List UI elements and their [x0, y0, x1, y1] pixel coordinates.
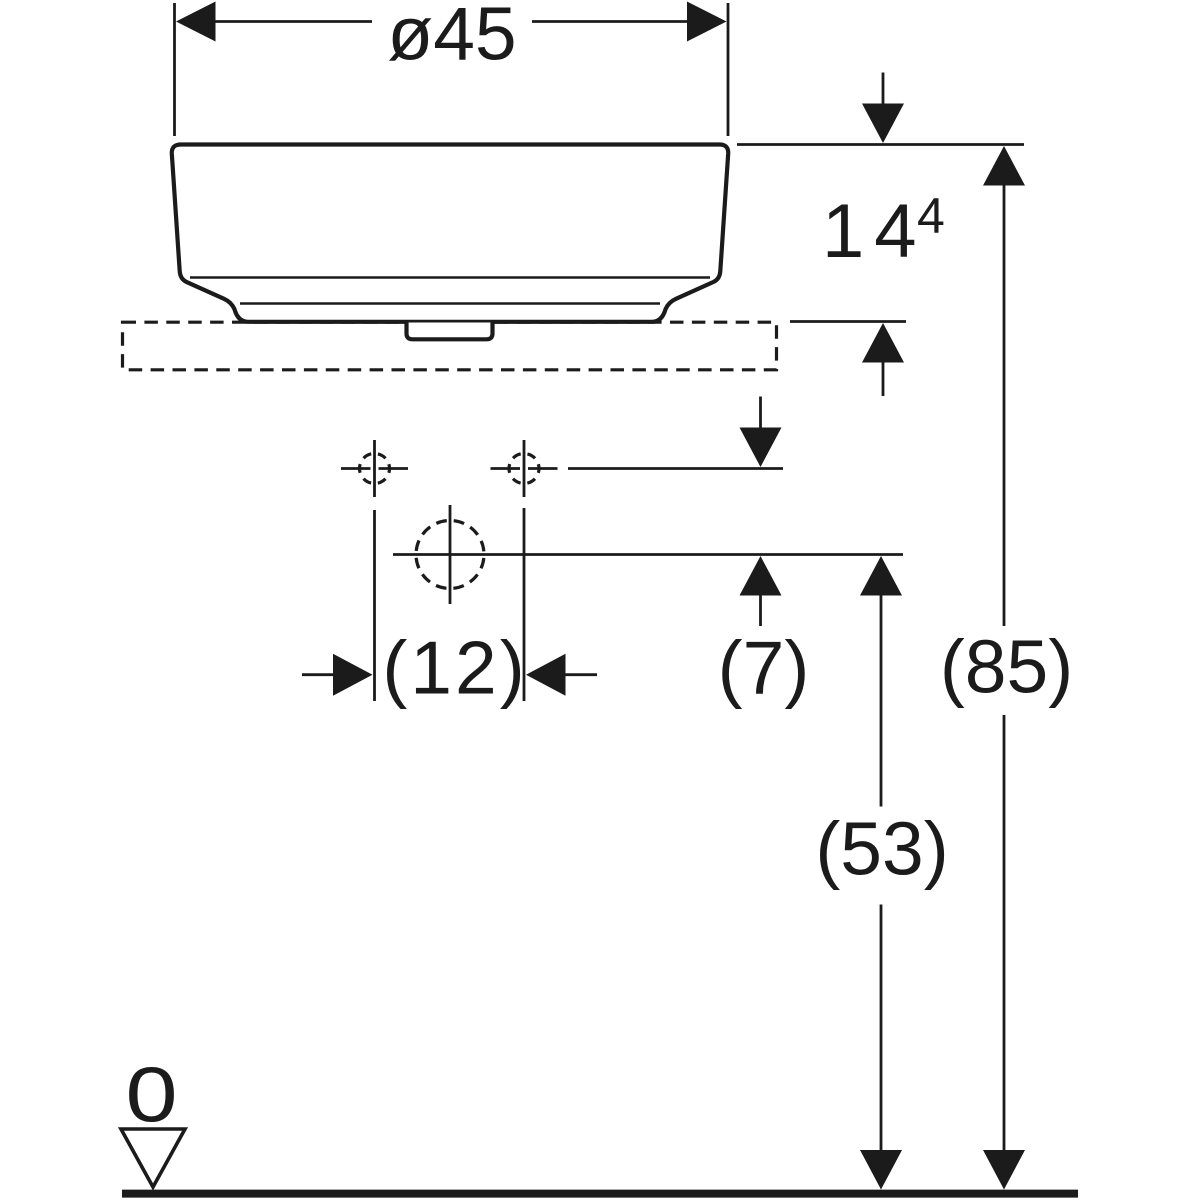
svg-text:ø45: ø45	[387, 0, 516, 76]
dim o45: right arrowhead	[687, 2, 727, 42]
dim 14: bottom arrow stem	[882, 363, 885, 397]
tap hole right: crosshair	[491, 440, 558, 497]
basin top level extension line	[737, 143, 1024, 146]
dim 53: upper stem	[880, 596, 883, 807]
dim 12: left arrowhead (right pointing)	[333, 654, 373, 696]
dashed countertop rectangle	[123, 322, 777, 370]
svg-text:4: 4	[917, 188, 945, 244]
svg-text:14: 14	[822, 189, 927, 274]
dim 53: top arrowhead (up)	[860, 556, 902, 596]
dim 12: right arrowhead (left pointing)	[526, 654, 566, 696]
dim 12: right extension line	[523, 508, 526, 701]
svg-text:0: 0	[125, 1051, 177, 1138]
tap hole level line	[568, 467, 783, 470]
basin inner line upper	[190, 276, 710, 279]
dim 7: down arrowhead	[740, 428, 782, 468]
drain hole level line	[393, 553, 903, 556]
drain outlet	[407, 323, 493, 340]
dim 7: down arrow stem	[759, 397, 762, 429]
dim o45: left arrowhead	[176, 2, 216, 42]
dim o45: line left segment	[214, 20, 372, 23]
dim 85: top arrowhead (up)	[983, 146, 1025, 186]
basin inner line lower	[240, 302, 660, 305]
dim 7: up arrowhead	[740, 556, 782, 596]
dim 85: lower stem	[1003, 715, 1006, 1151]
dim o45: line right segment	[532, 20, 689, 23]
dim 14: top arrowhead (down)	[862, 104, 904, 144]
svg-text:(85): (85)	[940, 625, 1073, 709]
dim 12: left arrow stem	[302, 673, 334, 676]
dim 85: bottom arrowhead (down)	[983, 1150, 1025, 1190]
dim 14: top arrow stem	[882, 73, 885, 105]
svg-text:(12): (12)	[382, 626, 527, 710]
drain hole: dashed circle	[416, 521, 484, 589]
datum zero triangle	[121, 1129, 185, 1187]
drain hole: vertical crosshair	[449, 505, 452, 604]
dim o45: left extension line	[173, 3, 176, 136]
tap hole left: crosshair	[341, 440, 408, 497]
dim 12: left extension line	[373, 510, 376, 701]
dim 7: up arrow stem	[759, 596, 762, 627]
basin outline	[172, 145, 728, 322]
tap hole right: dashed circle	[509, 454, 539, 484]
dim 53: lower stem	[880, 905, 883, 1152]
ground line	[122, 1190, 1078, 1198]
dim 53: bottom arrowhead (down)	[860, 1150, 902, 1190]
dim 85: upper stem	[1003, 186, 1006, 627]
dim 12: right arrow stem	[566, 673, 598, 676]
dim 14: bottom arrowhead (up)	[862, 323, 904, 363]
dim o45: right extension line	[727, 3, 730, 136]
svg-text:(7): (7)	[718, 626, 810, 710]
svg-text:(53): (53)	[815, 807, 948, 891]
basin bottom level extension line	[790, 320, 906, 323]
tap hole left: dashed circle	[360, 454, 390, 484]
